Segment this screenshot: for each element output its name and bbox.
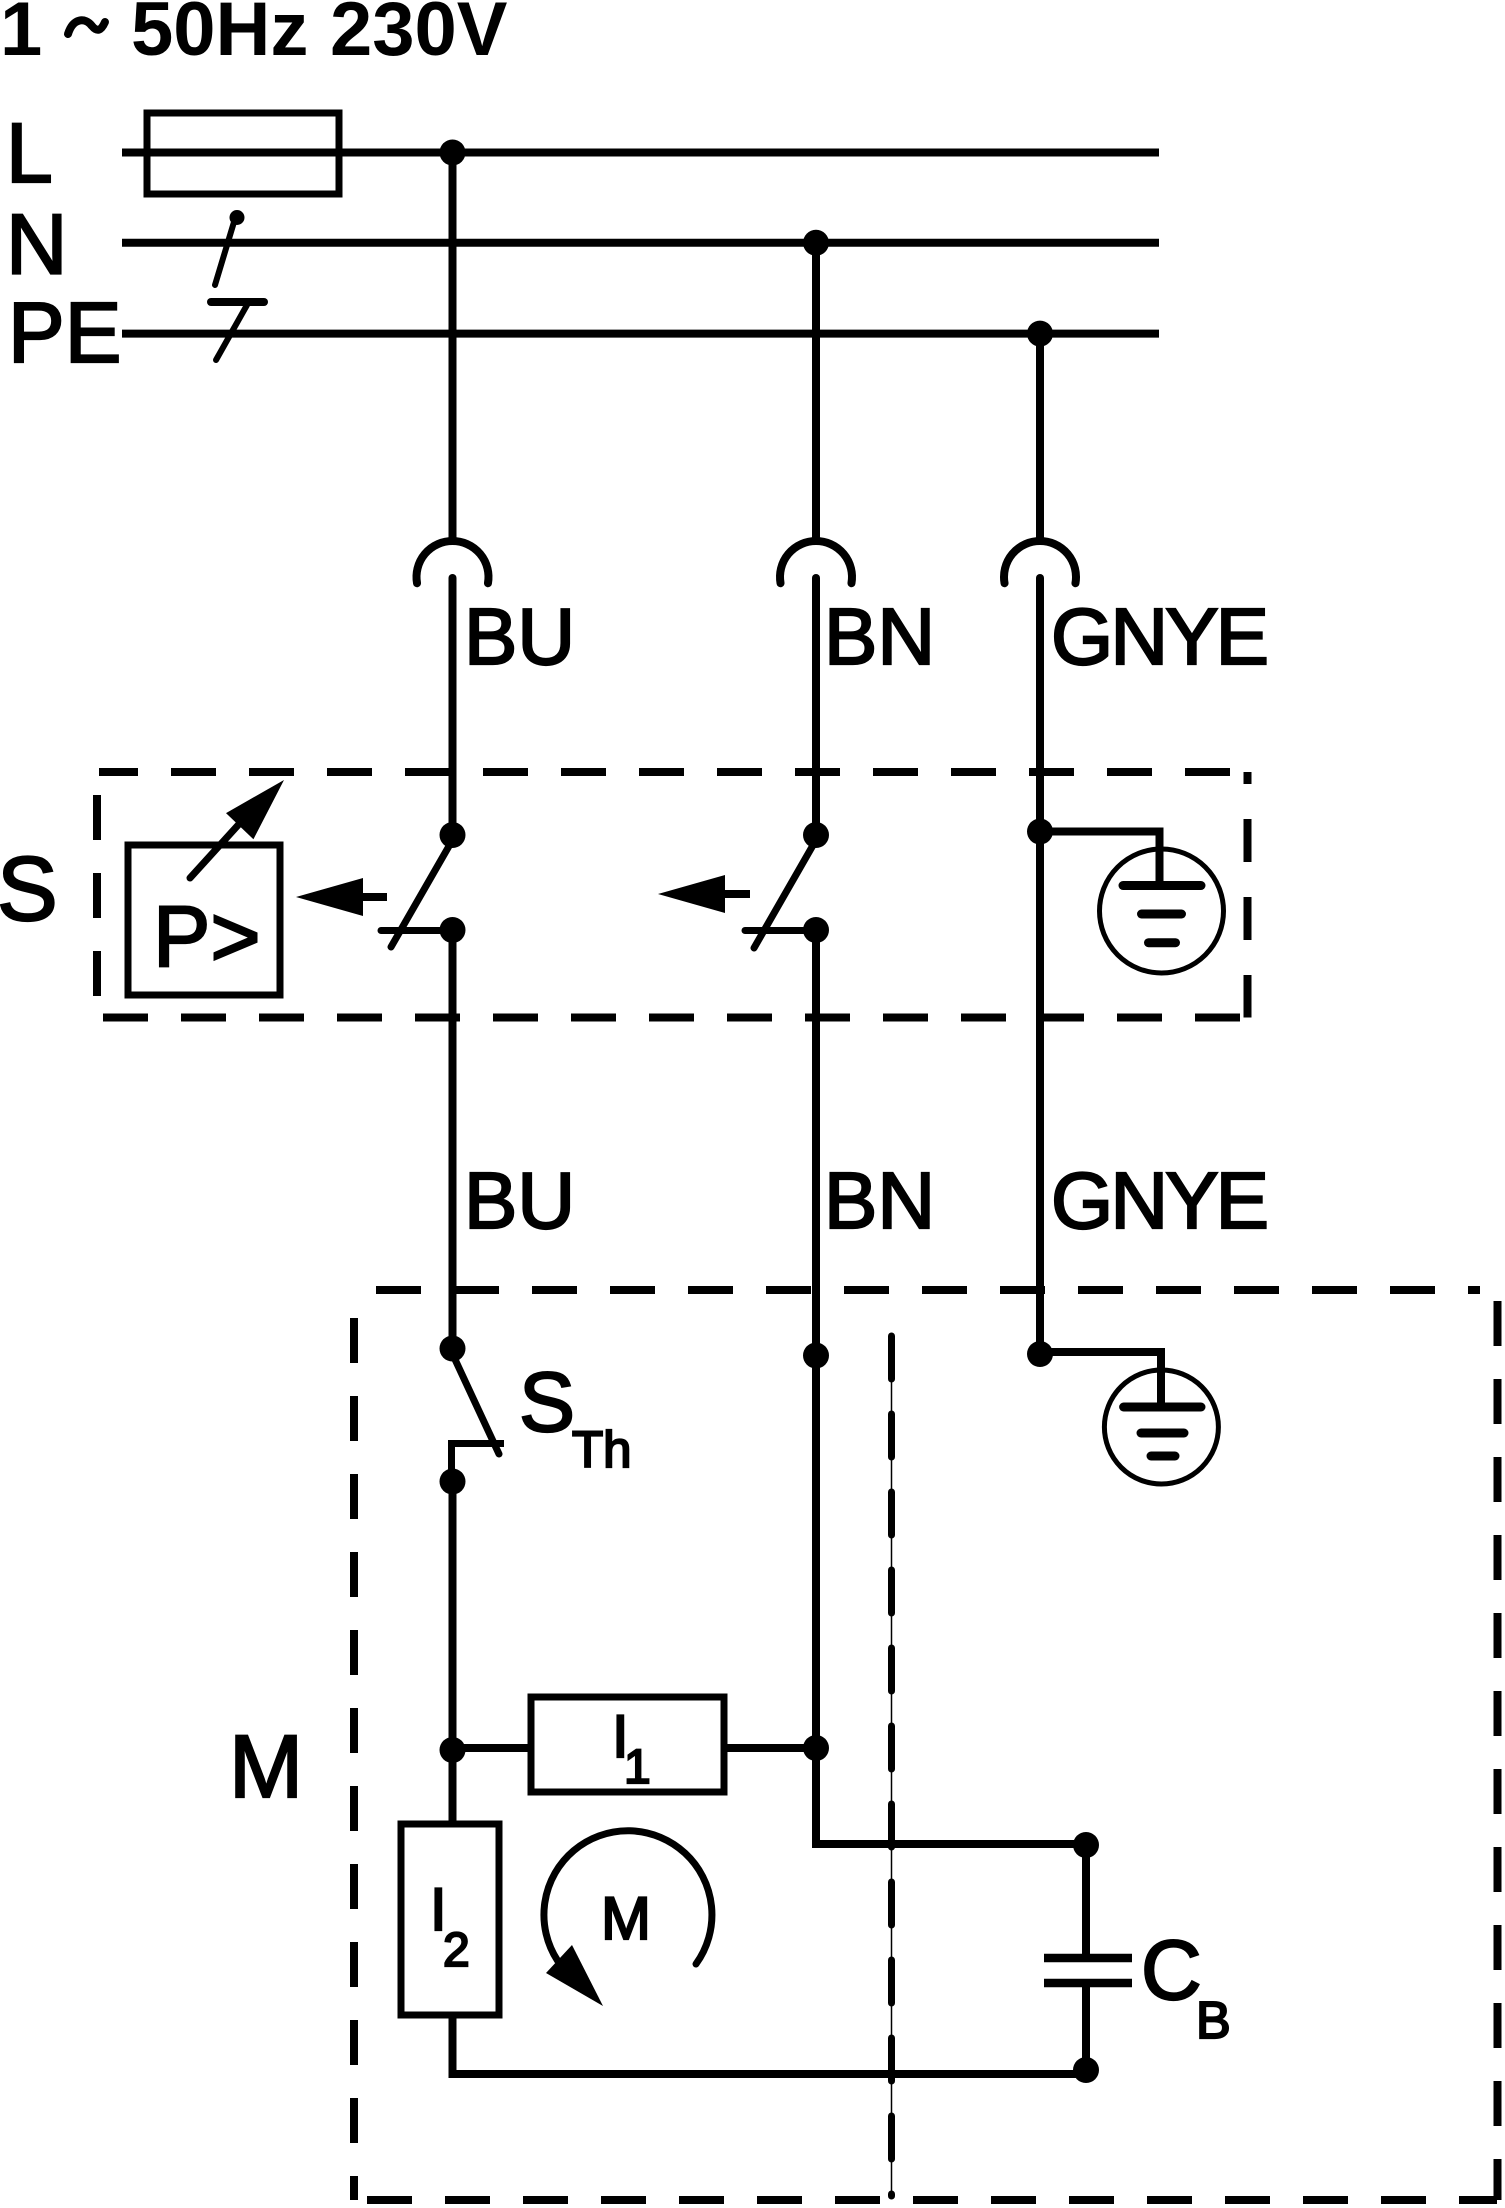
wire L bus: [122, 149, 1159, 157]
wire BU below arc: [449, 578, 457, 835]
label CB: [1141, 1923, 1231, 2050]
svg-text:S: S: [519, 1355, 575, 1449]
winding I1 box: [531, 1697, 724, 1792]
wire to earth 1: [1040, 832, 1160, 890]
wire to earth 2: [1040, 1352, 1161, 1405]
wire I1 node to I2: [449, 1750, 457, 1824]
svg-text:M: M: [229, 1716, 303, 1816]
node L junction: [440, 140, 466, 166]
connector arc BU: [416, 541, 488, 583]
svg-text:230V: 230V: [330, 0, 508, 72]
wire node to I1: [453, 1744, 532, 1752]
disconnect mark on N: [215, 210, 245, 285]
svg-text:1: 1: [624, 1741, 651, 1794]
svg-text:L: L: [6, 106, 53, 200]
svg-text:BU: BU: [464, 1156, 575, 1245]
svg-text:2: 2: [443, 1924, 470, 1977]
dashed box M top: [355, 1286, 1480, 1294]
svg-text:BN: BN: [824, 1156, 935, 1245]
svg-text:S: S: [0, 839, 58, 940]
tilde of 1~: [68, 20, 105, 34]
wire BU STh to I1 node: [449, 1482, 457, 1751]
node I1 left: [440, 1737, 466, 1763]
wire GNYE below arc through S box: [1036, 578, 1044, 1354]
wire I2 to bottom: [453, 2015, 1087, 2074]
winding I2 box: [401, 1824, 499, 2015]
wire PE bus: [122, 330, 1159, 338]
wire BN down to capacitor branch: [812, 1356, 1086, 1845]
svg-text:N: N: [6, 198, 67, 293]
svg-text:1: 1: [0, 0, 42, 72]
capacitor CB: [1044, 1845, 1132, 2074]
partition line thin: [891, 1336, 893, 2196]
actuator arrow on P>: [190, 780, 284, 878]
svg-text:M: M: [601, 1885, 651, 1952]
earth symbol 1: [1100, 849, 1224, 973]
wire I1 to BN node: [724, 1744, 816, 1752]
svg-text:P>: P>: [153, 889, 261, 985]
svg-text:Th: Th: [572, 1421, 632, 1478]
wire BN S box to M box: [812, 930, 820, 1356]
fuse on L: [147, 113, 339, 194]
linkage arrow to P>: [296, 878, 387, 916]
node N junction: [803, 230, 829, 256]
wire BN below arc: [812, 578, 820, 835]
svg-text:B: B: [1196, 1992, 1231, 2050]
svg-text:BN: BN: [824, 592, 935, 681]
svg-text:50Hz: 50Hz: [131, 0, 308, 72]
disconnect mark on PE: [211, 302, 264, 360]
switch contact S1 (BU): [381, 822, 466, 947]
svg-text:PE: PE: [8, 286, 121, 381]
wire BN drop from N: [812, 243, 820, 542]
dashed box M bottom: [355, 2196, 1497, 2204]
svg-text:C: C: [1141, 1923, 1202, 2017]
node BU in M box: [440, 1336, 466, 1362]
title 1 ~ 50Hz 230V: [0, 0, 508, 72]
dashed box M left: [350, 1290, 358, 2200]
pressure switch P> box: [128, 845, 280, 995]
earth symbol 2: [1104, 1370, 1218, 1484]
node I1 right: [803, 1735, 829, 1761]
switch contact S2 (BN): [745, 822, 829, 948]
label STh: [519, 1355, 632, 1478]
node GNYE in S box: [1027, 819, 1053, 845]
svg-text:BU: BU: [464, 592, 575, 681]
linkage arrow to S1: [658, 875, 750, 913]
wire BU drop from L: [449, 153, 457, 543]
wire N bus: [122, 239, 1159, 247]
dashed box S top: [99, 768, 1251, 776]
connector arc BN: [780, 541, 852, 583]
wire BU S box to M box: [449, 930, 457, 1349]
node capacitor bottom: [1073, 2057, 1099, 2083]
dashed box S right: [1244, 772, 1252, 1018]
svg-text:GNYE: GNYE: [1051, 1156, 1269, 1245]
connector arc GNYE: [1004, 541, 1076, 583]
wire GNYE drop from PE: [1036, 334, 1044, 542]
node capacitor top: [1073, 1832, 1099, 1858]
node BN in M box: [803, 1343, 829, 1369]
dashed box S bottom: [99, 1014, 1251, 1022]
svg-text:GNYE: GNYE: [1051, 592, 1269, 681]
node PE junction: [1027, 321, 1053, 347]
dashed box M right: [1494, 1290, 1502, 2200]
thermal switch STh: [440, 1354, 505, 1495]
motor rotation arc M: [544, 1831, 712, 2006]
partition line dashes: [888, 1336, 895, 2196]
dashed box S left: [93, 772, 101, 1018]
node GNYE in M box: [1027, 1341, 1053, 1367]
